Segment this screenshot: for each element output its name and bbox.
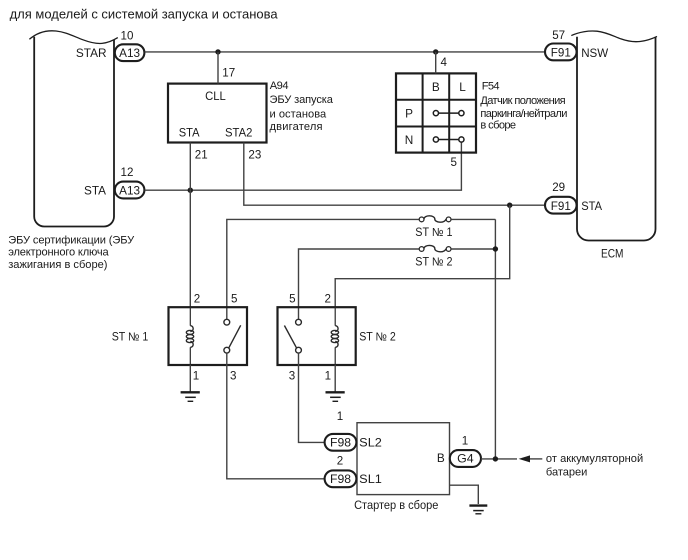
svg-text:от аккумуляторной: от аккумуляторной	[546, 453, 643, 465]
connector body: smart key ECU (ЭБУ сертификации)	[29, 31, 117, 227]
caption: smart key ECU description	[8, 234, 135, 271]
svg-text:B: B	[432, 80, 440, 94]
svg-text:57: 57	[552, 29, 565, 42]
svg-text:STA: STA	[581, 199, 602, 213]
connector oval F98 (SL1)	[325, 470, 357, 487]
svg-text:10: 10	[121, 30, 134, 43]
relay ST2 coil	[331, 307, 338, 365]
wire: A94 pin 21 down to relay ST1 coil	[189, 143, 191, 308]
svg-text:Датчик положения: Датчик положения	[480, 95, 565, 107]
svg-text:зажигания в сборе): зажигания в сборе)	[8, 259, 107, 271]
svg-text:1: 1	[193, 370, 199, 383]
svg-text:L: L	[459, 80, 466, 94]
junction: G4 wire / fuse bus	[493, 456, 498, 461]
starter assembly box	[357, 423, 450, 495]
wire: CLL pin 17	[217, 52, 219, 84]
junction: ECM STA wire / ST2 coil branch	[507, 203, 512, 208]
svg-text:F91: F91	[551, 46, 571, 60]
svg-text:12: 12	[121, 166, 134, 179]
fuse ST No.2	[299, 245, 496, 319]
junction: STAR bus / CLL pin 17	[215, 49, 220, 54]
wire: ST1 pin 1 to ground	[189, 365, 191, 392]
wire: battery feed bus from fuses down to G4	[494, 219, 496, 459]
relay ST No.1 box	[169, 307, 248, 365]
svg-text:ST № 2: ST № 2	[415, 256, 452, 269]
svg-text:STA2: STA2	[225, 126, 252, 140]
svg-text:1: 1	[462, 435, 468, 448]
svg-text:2: 2	[324, 292, 330, 305]
svg-text:1: 1	[337, 410, 343, 423]
svg-text:17: 17	[222, 67, 235, 80]
svg-text:ЭБУ сертификации (ЭБУ: ЭБУ сертификации (ЭБУ	[8, 234, 135, 246]
relay ST2 switch contact	[284, 319, 301, 353]
svg-text:F54: F54	[482, 81, 500, 93]
svg-text:NSW: NSW	[581, 46, 609, 60]
svg-text:B: B	[437, 451, 445, 465]
ECU A94: engine start-stop ECU box	[168, 84, 267, 143]
wire: starter case to ground	[450, 485, 479, 504]
svg-text:29: 29	[552, 181, 565, 194]
connector oval A13 (pin 10)	[115, 44, 145, 61]
svg-text:ST № 1: ST № 1	[415, 226, 452, 239]
svg-text:CLL: CLL	[205, 89, 226, 103]
svg-text:F98: F98	[330, 472, 351, 486]
ground (starter)	[469, 506, 487, 514]
connector oval F91 (pin 57)	[545, 44, 577, 61]
svg-text:F91: F91	[551, 199, 571, 213]
svg-text:P: P	[405, 107, 413, 121]
junction: fuse ST No.2 / battery bus	[493, 246, 498, 251]
svg-text:двигателя: двигателя	[270, 121, 323, 133]
svg-text:2: 2	[337, 455, 343, 468]
svg-text:SL2: SL2	[359, 436, 382, 450]
arrow: from battery	[519, 455, 530, 462]
contact P row of F54	[433, 111, 464, 116]
relay ST1 coil	[186, 307, 193, 365]
label F54 designator and description	[480, 81, 567, 132]
switch F54: park/neutral position sensor grid box	[396, 73, 476, 152]
svg-text:F98: F98	[330, 436, 351, 450]
wire: STAR bus from A13 to ECM NSW	[145, 51, 545, 53]
connector oval F98 (SL2)	[325, 434, 357, 451]
svg-text:электронного ключа: электронного ключа	[8, 247, 109, 259]
svg-text:паркинга/нейтрали: паркинга/нейтрали	[480, 108, 567, 120]
svg-text:STA: STA	[179, 126, 200, 140]
svg-text:Стартер в сборе: Стартер в сборе	[354, 499, 438, 512]
svg-text:A13: A13	[119, 46, 140, 60]
svg-text:2: 2	[194, 292, 200, 305]
svg-text:ECM: ECM	[601, 247, 624, 261]
ground (relay ST1)	[181, 392, 200, 401]
svg-text:STA: STA	[84, 183, 106, 197]
svg-text:ЭБУ запуска: ЭБУ запуска	[270, 94, 334, 106]
svg-text:5: 5	[231, 292, 237, 305]
label: from battery	[546, 453, 643, 478]
wire: ST2 pin 1 to ground	[334, 365, 336, 392]
relay ST1 switch contact	[224, 319, 241, 353]
relay ST No.2 box	[278, 307, 356, 365]
ground (relay ST2)	[326, 392, 345, 401]
svg-text:N: N	[405, 133, 414, 147]
connector oval A13 (pin 12)	[115, 182, 145, 199]
svg-text:3: 3	[289, 370, 295, 383]
junction: STAR bus / F54 pin 4	[433, 49, 438, 54]
svg-text:5: 5	[451, 156, 457, 169]
wire: from ECM STA junction down-left to relay ST2 coil pin 2	[335, 205, 510, 307]
svg-text:A94: A94	[270, 80, 289, 92]
svg-text:для моделей с системой запуска: для моделей с системой запуска и останов…	[10, 7, 279, 22]
fuse ST No.1	[227, 216, 496, 319]
svg-text:21: 21	[195, 148, 208, 161]
svg-text:1: 1	[325, 370, 331, 383]
connector oval G4	[450, 450, 481, 467]
wire: G4 battery feed	[481, 458, 517, 460]
svg-text:4: 4	[441, 56, 448, 69]
svg-text:и останова: и останова	[270, 108, 328, 120]
junction: STA net / relay ST1 coil branch	[188, 188, 193, 193]
svg-text:A13: A13	[119, 183, 140, 197]
connector oval F91 (pin 29)	[545, 197, 577, 214]
connector body: ECM	[571, 31, 657, 241]
wire: ST2 pin 3 to starter SL2	[299, 353, 325, 442]
wire: arrow tail stub	[530, 458, 542, 460]
svg-text:23: 23	[248, 148, 261, 161]
svg-text:3: 3	[230, 370, 236, 383]
wire: F54 pin 4	[435, 52, 437, 74]
contact N row of F54	[433, 137, 464, 142]
svg-text:батареи: батареи	[546, 466, 587, 478]
label A94 designator and description	[270, 80, 334, 133]
svg-text:SL1: SL1	[359, 472, 382, 486]
svg-text:G4: G4	[457, 452, 474, 466]
svg-text:STAR: STAR	[76, 46, 107, 60]
svg-text:5: 5	[289, 292, 295, 305]
svg-text:ST № 1: ST № 1	[112, 330, 149, 343]
wire: ST1 pin 3 to starter SL1	[227, 353, 325, 479]
wire: A94 STA2 pin 23 to ECM STA F91	[244, 143, 545, 206]
svg-text:ST № 2: ST № 2	[359, 330, 396, 343]
wire: STA net from A13 pin12 to F54 pin 5	[145, 142, 462, 190]
svg-text:в сборе: в сборе	[480, 120, 516, 132]
